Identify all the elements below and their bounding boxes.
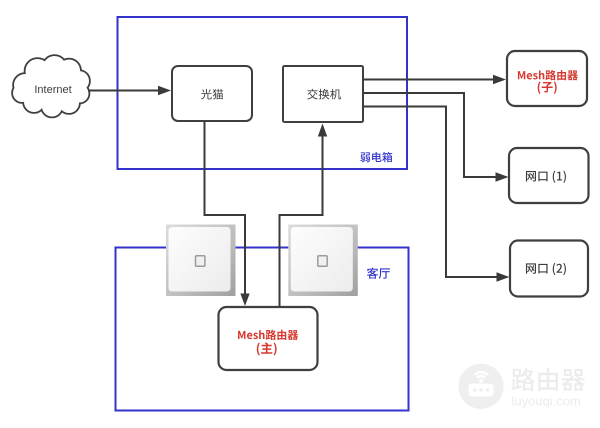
wire Mesh路由器(主) up to 交换机 with arrowhead: [280, 124, 328, 308]
wire 光猫 down to Mesh路由器(主) with arrowhead: [205, 122, 250, 307]
label 弱电箱: [360, 152, 392, 162]
wall plate 1 (network socket faceplate): [166, 225, 236, 297]
label 客厅: [367, 268, 390, 279]
bottom blue container box 客厅 (living room): [116, 248, 409, 411]
wire 交换机 to Mesh路由器(子) with arrowhead: [363, 75, 506, 84]
wire 交换机 to 网口(2) with arrowhead: [363, 107, 510, 282]
box 交换机 (switch): [283, 66, 363, 122]
box 网口(1) network port 1: [509, 148, 589, 203]
cloud Internet: [13, 56, 89, 117]
wall plate 2 (network socket faceplate): [288, 225, 358, 297]
box Mesh路由器(子) satellite mesh router: [507, 51, 587, 106]
box 网口(2) network port 2: [510, 241, 588, 297]
watermark text 路由器: [511, 368, 585, 391]
top blue container box 弱电箱 (weak current box): [118, 17, 408, 169]
svg-text:Internet: Internet: [34, 84, 71, 96]
wire cloud to 光猫 with arrowhead: [88, 86, 171, 95]
box 光猫 (optical modem): [172, 66, 252, 121]
svg-text:luyouqi.com: luyouqi.com: [512, 394, 581, 409]
wire 交换机 to 网口(1) with arrowhead: [363, 93, 509, 182]
box Mesh路由器(主) main mesh router: [219, 307, 318, 370]
watermark logo circle with router icon: [458, 364, 503, 409]
